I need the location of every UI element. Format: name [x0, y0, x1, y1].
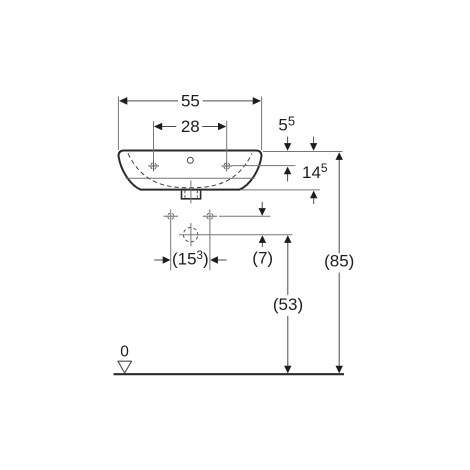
dim 85 vertical line lower part [338, 273, 340, 367]
dim 85 bottom arrowhead (down) [336, 366, 343, 374]
dim 15.3 right arrow (left-pointing) [218, 259, 227, 261]
dimension 55 line [127, 100, 178, 102]
bolt hole line extension to right [219, 215, 270, 217]
tap hole right [221, 161, 232, 172]
drain box inner dashed walls [185, 191, 197, 199]
dimension 28 right arrowhead [218, 123, 226, 131]
dim 7 lower arrow (up) [261, 243, 263, 247]
svg-text:(53): (53) [273, 295, 303, 314]
extension line 55 left [117, 96, 119, 150]
svg-text:0: 0 [120, 343, 129, 360]
datum triangle [118, 361, 132, 373]
dimension 28 line [161, 126, 176, 128]
dim 85 top arrowhead (up) [336, 152, 343, 160]
extension line 28 left [153, 121, 155, 161]
extension line 28 right [226, 121, 228, 161]
dim 85 vertical line upper part [338, 159, 340, 254]
dim 53 bottom arrowhead (down) [284, 366, 291, 374]
drain centerline lower segment [190, 223, 192, 246]
dim 5.5 lower arrow (up) [287, 174, 289, 181]
trap dashed circle [182, 226, 199, 243]
dim 5.5 upper arrow (down) [287, 137, 289, 145]
basin bottom extension line to right [240, 189, 320, 191]
trap center line extension to right [179, 234, 293, 236]
bolt hole extension line left [170, 209, 172, 270]
svg-text:55: 55 [181, 91, 200, 110]
dim 53 top arrowhead (up) [284, 235, 291, 243]
svg-text:(7): (7) [252, 248, 273, 267]
basin outline [119, 151, 262, 190]
tap hole extension line to right [232, 165, 296, 167]
inner bowl dashed curve [128, 154, 252, 188]
svg-text:(85): (85) [324, 252, 354, 271]
dim 7 upper arrow (down) [261, 202, 263, 209]
extension line 55 right [261, 96, 263, 150]
rim top extension line to right [263, 151, 343, 153]
drain box [182, 191, 201, 199]
overflow hole [187, 157, 193, 163]
dim 14.5 upper arrow (down) [313, 137, 315, 145]
basin front crease line [126, 177, 255, 179]
bolt hole left cross [164, 212, 178, 220]
svg-text:28: 28 [181, 117, 200, 136]
bolt hole extension line right [209, 209, 211, 270]
dimension 28 left arrowhead [154, 123, 162, 131]
dim 53 vertical line lower part [287, 316, 289, 366]
dim 53 vertical line upper part [287, 242, 289, 295]
dimension 55 left arrowhead [119, 97, 127, 105]
dimension 55 right arrowhead [253, 97, 261, 105]
drain centerline upper segment [190, 181, 192, 204]
floor line [114, 373, 345, 375]
tap hole left [148, 161, 159, 172]
svg-text:(153): (153) [172, 249, 209, 268]
dim 14.5 lower arrow (up) [313, 198, 315, 204]
dim 15.3 left arrow (right-pointing) [154, 259, 163, 261]
bolt hole right cross [203, 212, 217, 220]
